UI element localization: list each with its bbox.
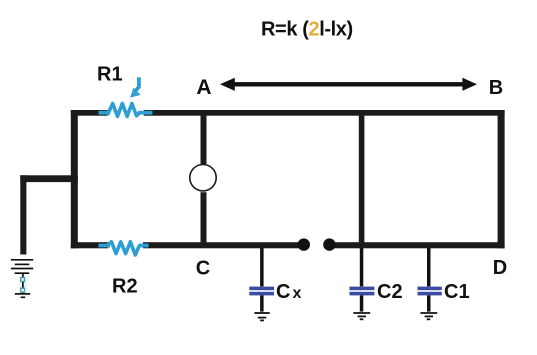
svg-text:D: D bbox=[493, 257, 507, 279]
battery / ground symbol left bbox=[11, 260, 33, 298]
junction dot right bbox=[323, 238, 335, 250]
wire ground branch vertical bbox=[20, 175, 26, 254]
selection highlight tint bbox=[19, 276, 27, 293]
wire top left of R1 bbox=[71, 110, 108, 116]
capacitor C2 plates bbox=[350, 287, 375, 296]
capacitor Cx lead upper bbox=[260, 248, 264, 286]
svg-text:R1: R1 bbox=[97, 64, 123, 86]
wire A-C upper bbox=[201, 112, 207, 164]
resistor R1 stubs bbox=[99, 111, 153, 115]
svg-text:C: C bbox=[196, 257, 210, 279]
capacitor C1 plates bbox=[418, 287, 442, 296]
svg-text:Cx: Cx bbox=[276, 281, 301, 303]
svg-text:C1: C1 bbox=[444, 281, 470, 303]
capacitor C2 lead upper bbox=[360, 248, 364, 286]
resistor R2 stubs bbox=[98, 244, 148, 248]
svg-text:A: A bbox=[196, 76, 211, 99]
wire bottom right segment bbox=[333, 242, 505, 248]
capacitor C1 lead lower bbox=[427, 295, 431, 311]
ground under C2 bbox=[353, 313, 370, 319]
dimension arrow A-B bbox=[220, 78, 477, 91]
svg-text:C2: C2 bbox=[377, 281, 403, 303]
capacitor C2 lead lower bbox=[360, 295, 364, 311]
svg-text:R2: R2 bbox=[112, 276, 138, 298]
wire ground branch horizontal bbox=[20, 175, 78, 182]
wire bottom left segment bbox=[143, 242, 299, 248]
galvanometer circle bbox=[190, 165, 216, 191]
wire bottom left of R2 bbox=[71, 242, 108, 248]
capacitor Cx plates bbox=[249, 287, 274, 296]
wire right vertical bbox=[498, 110, 505, 248]
ground under Cx bbox=[254, 313, 269, 320]
resistor R1 zigzag bbox=[108, 104, 139, 117]
selection handle square 2 bbox=[21, 288, 25, 292]
ground under C1 bbox=[420, 313, 437, 319]
wire A-C lower bbox=[201, 192, 207, 245]
selection handle square 1 bbox=[21, 278, 25, 282]
wire left vertical bbox=[71, 110, 78, 248]
svg-text:B: B bbox=[489, 77, 503, 99]
variable-resistor arrow on R1 bbox=[130, 77, 140, 97]
capacitor Cx lead lower bbox=[260, 295, 264, 311]
junction dot left bbox=[298, 238, 310, 250]
wire top A-B bbox=[144, 110, 505, 116]
wire vertical at C2 bbox=[359, 112, 365, 244]
svg-text:R=k (2l-lx): R=k (2l-lx) bbox=[261, 18, 353, 40]
resistor R2 zigzag bbox=[108, 242, 139, 255]
capacitor C1 lead upper bbox=[427, 248, 431, 286]
